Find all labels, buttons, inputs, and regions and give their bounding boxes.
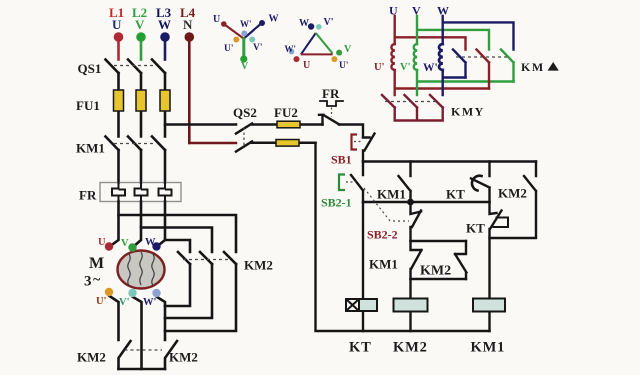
svg-text:W: W [299,18,309,29]
svg-text:KM2: KM2 [244,258,273,273]
svg-text:U: U [389,4,398,18]
svg-text:U': U' [374,62,385,73]
svg-text:FR: FR [322,86,340,101]
svg-text:V: V [241,61,249,72]
svg-text:KM1: KM1 [471,340,506,356]
svg-text:KM2: KM2 [77,350,106,365]
svg-text:W': W' [423,62,438,74]
svg-text:KMY: KMY [451,104,485,118]
svg-text:U': U' [96,296,107,307]
svg-text:W': W' [143,297,157,308]
svg-text:KM1: KM1 [377,187,406,202]
svg-text:SB2-1: SB2-1 [321,196,352,210]
svg-text:KM2: KM2 [393,340,428,356]
svg-text:V': V' [253,43,263,53]
svg-text:W': W' [240,19,252,29]
svg-text:M: M [89,255,104,272]
svg-text:V: V [121,238,129,249]
svg-text:~: ~ [93,273,101,288]
svg-text:V': V' [400,62,411,73]
svg-text:V: V [412,4,421,18]
svg-text:FU2: FU2 [274,105,298,120]
svg-text:V: V [344,44,352,55]
svg-text:W: W [437,4,449,18]
svg-text:V': V' [324,17,334,28]
svg-text:KM2: KM2 [420,264,451,279]
svg-text:U': U' [339,61,349,71]
svg-text:V': V' [119,297,130,308]
svg-text:SB1: SB1 [331,153,352,167]
svg-text:W: W [145,237,156,248]
svg-text:W: W [269,14,279,25]
svg-text:KT: KT [446,187,465,202]
svg-text:QS1: QS1 [78,61,102,76]
svg-text:KM: KM [521,60,545,74]
svg-text:KT: KT [466,221,485,236]
svg-text:U: U [303,60,310,71]
svg-text:W': W' [285,44,297,54]
svg-text:QS2: QS2 [233,105,257,120]
svg-text:KM1: KM1 [76,141,105,156]
svg-text:U': U' [224,44,234,54]
svg-text:U: U [98,237,106,248]
svg-text:3: 3 [84,274,92,290]
svg-text:SB2-2: SB2-2 [367,228,398,242]
svg-text:FR: FR [79,188,97,203]
svg-text:FU1: FU1 [76,98,100,113]
svg-text:W: W [158,17,171,32]
svg-text:N: N [183,17,193,32]
svg-text:U: U [213,14,220,25]
svg-text:KM1: KM1 [369,257,398,272]
svg-text:V: V [135,17,145,32]
svg-text:KM2: KM2 [169,350,198,365]
svg-text:U: U [112,17,122,32]
svg-text:KT: KT [349,340,372,356]
svg-text:KM2: KM2 [498,186,527,201]
